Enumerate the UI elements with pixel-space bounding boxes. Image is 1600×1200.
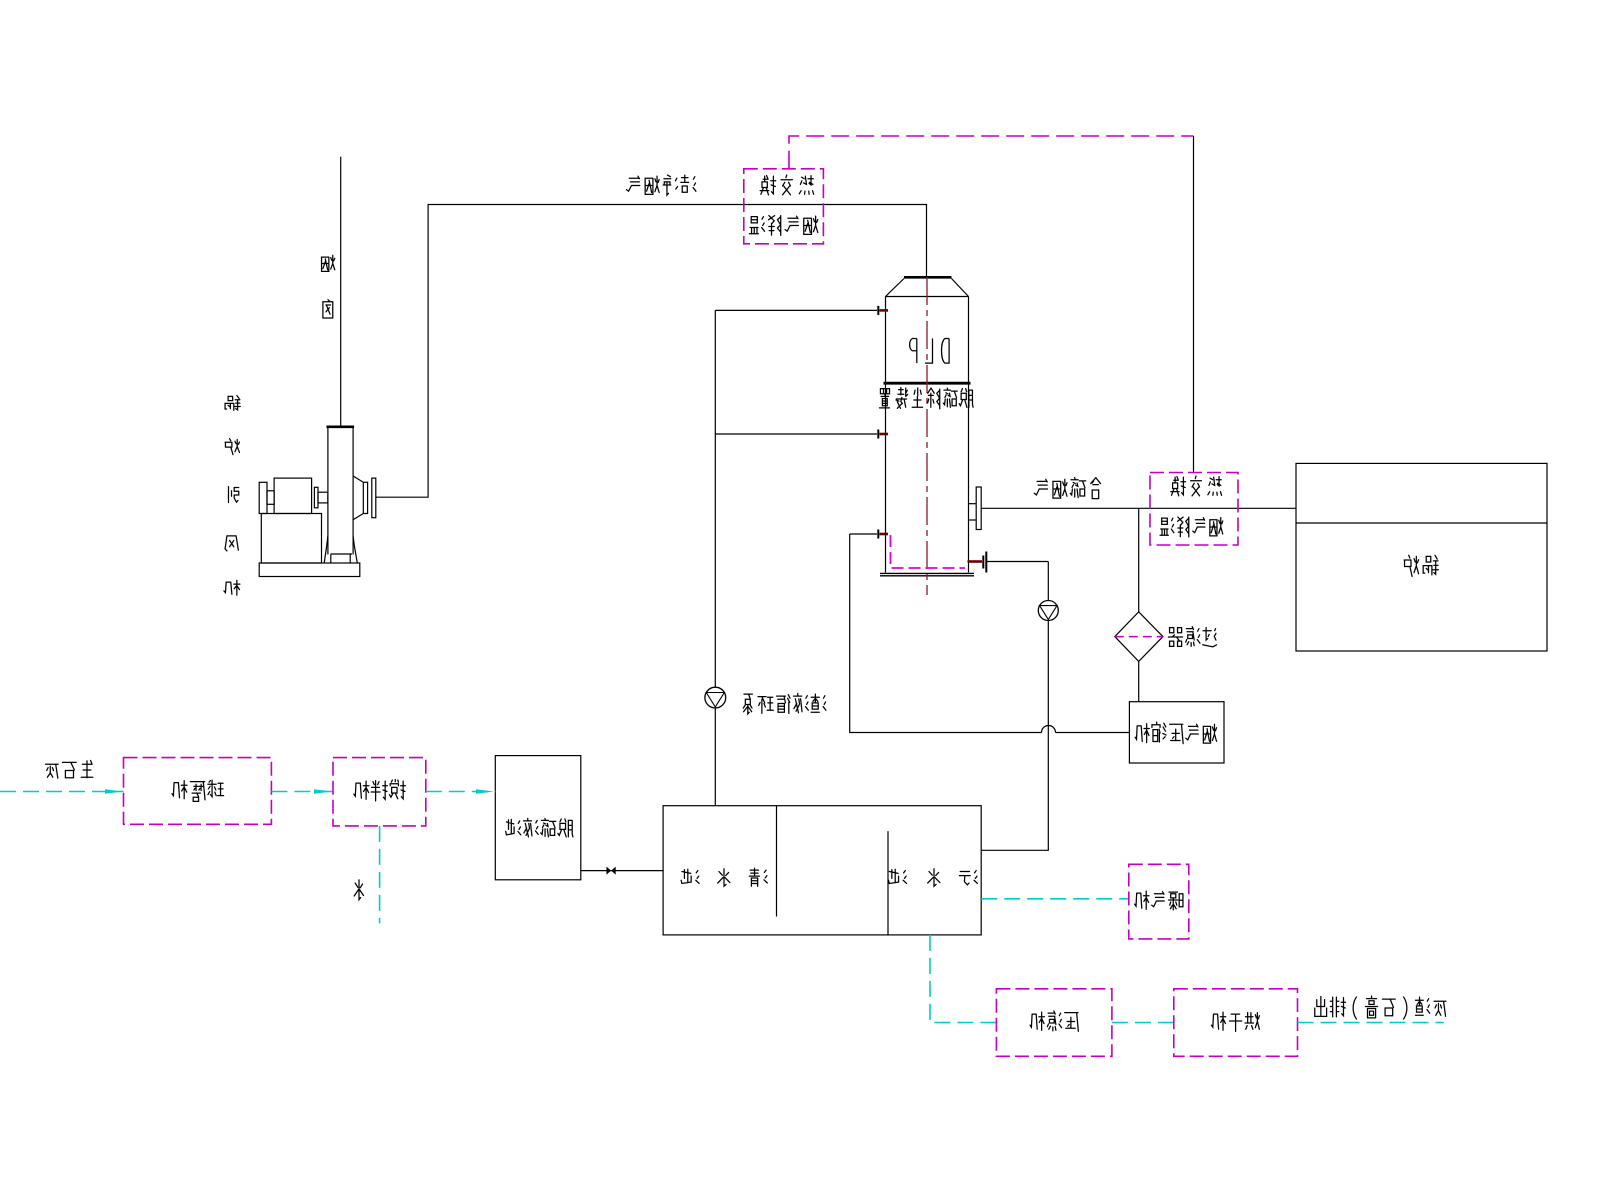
label 含硫烟气 (mirrored) bbox=[1034, 478, 1100, 499]
mixer label 搅拌机 (mirrored) bbox=[354, 780, 405, 801]
tower bottom-left drain nozzle bbox=[850, 533, 877, 535]
aerator label 曝气机 (mirrored) bbox=[1135, 891, 1183, 910]
label 污水池 (mirrored, spaced) bbox=[888, 869, 977, 886]
outlet flange plate bbox=[976, 487, 981, 530]
fan motor body bbox=[274, 478, 312, 513]
induced draft fan: top cap bbox=[327, 425, 355, 428]
nozzle red segment bbox=[880, 433, 889, 436]
fan motor left bracket bbox=[259, 482, 267, 513]
line to dryer bbox=[1112, 1022, 1174, 1024]
filter magenta dashed centerline bbox=[1115, 636, 1163, 638]
water pools box bbox=[663, 806, 981, 935]
aerator box 曝气机 (magenta dashed) bbox=[1129, 864, 1189, 939]
fan column legs bbox=[324, 536, 328, 563]
label 洁净烟气 (mirrored) bbox=[626, 175, 695, 195]
fan column bbox=[327, 428, 329, 555]
dryer box 烘干机 (magenta dashed) bbox=[1174, 989, 1298, 1057]
box2 label 热交换 (mirrored) bbox=[1171, 476, 1222, 496]
crossing hop bbox=[1042, 726, 1056, 733]
line to liquid tank bbox=[426, 791, 496, 793]
dryer label 烘干机 (mirrored) bbox=[1211, 1012, 1259, 1031]
nozzle tick bbox=[877, 306, 879, 315]
filter press label 压滤机 (mirrored) bbox=[1030, 1011, 1078, 1031]
discharge line bbox=[1298, 1022, 1444, 1024]
fan base plate bbox=[259, 563, 360, 577]
heat exchanger box 1 (magenta dashed) 热交换/烟气降温 bbox=[744, 169, 824, 244]
label 灰渣（石膏）排出 (mirrored) bbox=[1315, 996, 1446, 1019]
drain down and to compressor bbox=[850, 534, 1042, 733]
tower label 脱硫除尘装置 (mirrored) bbox=[879, 388, 973, 409]
branch to filter bbox=[1138, 508, 1140, 612]
tower lower-left inlet line bbox=[715, 433, 877, 435]
nozzle tick bbox=[877, 430, 879, 439]
fan inlet cone bbox=[353, 476, 363, 482]
box1 label 烟气降温 (mirrored) bbox=[749, 216, 817, 236]
tower base (double line) bbox=[880, 572, 974, 574]
compressor label 烟气压缩机 (mirrored) bbox=[1135, 722, 1216, 744]
chimney label 烟囱 (mirrored, vertical) bbox=[322, 255, 335, 271]
raw gas duct to boiler bbox=[981, 507, 1296, 509]
tower cone shoulders bbox=[886, 279, 905, 297]
tower walls bbox=[885, 297, 887, 573]
fan pedestal bbox=[261, 514, 321, 564]
DLP label (mirrored) bbox=[910, 338, 950, 363]
label 水 (mirrored) bbox=[354, 880, 363, 900]
label 清水池 (mirrored, spaced) bbox=[681, 868, 767, 886]
aeration line pool to 曝气机 bbox=[981, 898, 1129, 900]
tower mid band bbox=[884, 382, 971, 385]
drain down to sewage pool bbox=[1047, 562, 1049, 601]
filter diamond bbox=[1115, 612, 1163, 662]
filter to compressor bbox=[1138, 661, 1140, 701]
slurry pump bbox=[1038, 601, 1058, 621]
mixer box 搅拌机 (magenta dashed) bbox=[333, 758, 426, 826]
clean flue gas duct: fan outlet up and across to tower top bbox=[376, 205, 927, 498]
heat exchanger box 2 (magenta dashed) bbox=[1150, 473, 1238, 546]
nozzle red segment bbox=[880, 309, 889, 312]
boiler divider bbox=[1296, 522, 1547, 524]
line to mixer bbox=[271, 791, 333, 793]
filter label 过滤器 (mirrored) bbox=[1168, 627, 1216, 647]
vertical line down to heat exchanger box 2 bbox=[1193, 136, 1195, 473]
tank label 脱硫液池 (mirrored) bbox=[506, 818, 573, 837]
valve bbox=[607, 867, 616, 875]
boiler label 锅炉 (mirrored) bbox=[1404, 555, 1438, 576]
filter press box 压滤机 (magenta dashed) bbox=[996, 989, 1112, 1057]
quicklime feed line 生石灰 bbox=[0, 791, 124, 793]
DLP desulfurization tower: top cap bbox=[904, 276, 952, 279]
interior spray pipe (pink dashed) bbox=[891, 535, 966, 568]
valve line tank to pool bbox=[581, 870, 663, 872]
water feed line bbox=[379, 826, 381, 924]
magenta dashed link from box1 to right vertical bbox=[789, 136, 1194, 169]
ball mill label 球磨机 (mirrored) bbox=[172, 780, 224, 801]
fan shaft flange bbox=[314, 487, 318, 508]
fan motor hub bbox=[267, 491, 274, 505]
desulfurization liquid tank 脱硫液池 bbox=[495, 756, 581, 880]
tower upper-left inlet line bbox=[715, 309, 877, 311]
pool divider 1 bbox=[776, 806, 778, 917]
fan label 锅炉引风机 (mirrored, vertical) bbox=[225, 396, 240, 411]
pool divider 2 bbox=[887, 831, 889, 935]
box1 label 热交换 (mirrored) bbox=[760, 175, 814, 195]
fan outlet flange bbox=[372, 478, 376, 518]
sludge line pool bottom to filter press bbox=[930, 935, 996, 1023]
label 生石灰 (mirrored) bbox=[46, 760, 93, 778]
flue gas compressor box bbox=[1129, 702, 1224, 763]
circulation line from pool up to tower bbox=[714, 310, 716, 687]
ball mill box 球磨机 (magenta dashed) bbox=[124, 758, 272, 825]
tower bottom-right drain nozzle bbox=[968, 560, 983, 563]
pump label 渣液循环泵 (mirrored) bbox=[743, 694, 826, 714]
boiler box bbox=[1296, 463, 1547, 651]
chimney stack line bbox=[340, 157, 342, 426]
fan shaft bbox=[318, 492, 328, 503]
box2 label 烟气降温 (mirrored) bbox=[1160, 517, 1223, 537]
tower right gas outlet neck bbox=[969, 503, 977, 505]
circulation pump 渣液循环泵 bbox=[705, 687, 726, 708]
tower red centerline bbox=[926, 277, 928, 595]
